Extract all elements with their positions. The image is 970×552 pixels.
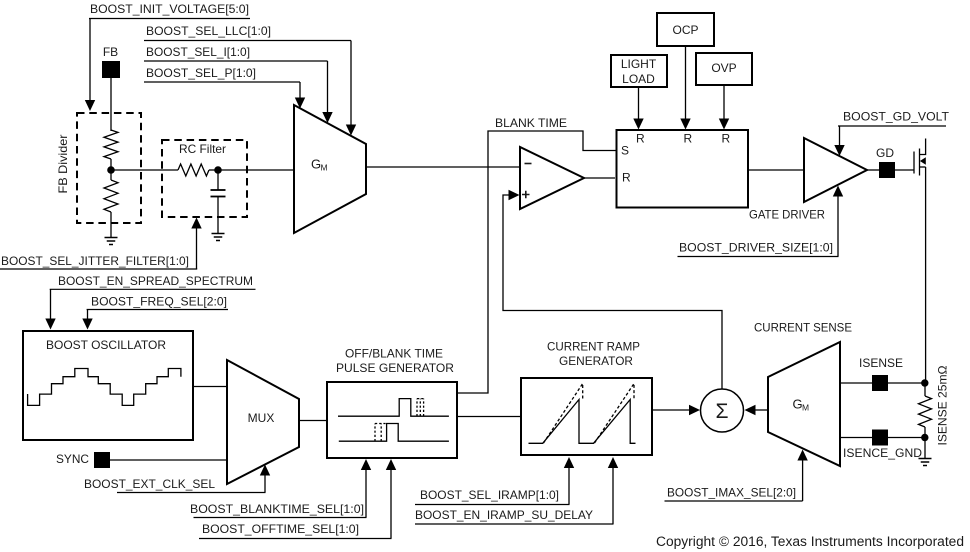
wire OCP to latch — [685, 46, 687, 119]
summer sigma — [701, 389, 744, 432]
svg-text:Copyright © 2016, Texas Instru: Copyright © 2016, Texas Instruments Inco… — [656, 534, 964, 549]
wire divider middle — [110, 159, 112, 180]
svg-text:BOOST_DRIVER_SIZE[1:0]: BOOST_DRIVER_SIZE[1:0] — [679, 241, 833, 255]
wire summer to comparator plus — [503, 195, 722, 389]
wire LIGHT LOAD to latch — [638, 87, 640, 119]
svg-text:BOOST OSCILLATOR: BOOST OSCILLATOR — [46, 338, 166, 352]
FB Divider dashed box — [77, 113, 141, 223]
GM label U1 — [311, 157, 328, 173]
capacitor RC filter — [211, 170, 226, 233]
ground ISENSE — [919, 459, 932, 466]
svg-text:LIGHT: LIGHT — [621, 57, 657, 71]
svg-text:BOOST_SEL_I[1:0]: BOOST_SEL_I[1:0] — [146, 45, 250, 59]
gate driver U4 — [804, 138, 867, 202]
svg-text:BOOST_FREQ_SEL[2:0]: BOOST_FREQ_SEL[2:0] — [91, 295, 227, 309]
CURRENT RAMP GENERATOR labels — [547, 340, 640, 369]
wire BOOST_EN_SPREAD_SPECTRUM — [50, 289, 52, 319]
wire latch to gate driver — [747, 169, 804, 171]
svg-text:FB: FB — [103, 45, 118, 59]
arrowhead BOOST_SEL_I — [322, 112, 332, 123]
label BOOST_SEL_JITTER_FILTER[1:0] — [0, 254, 197, 269]
wire BOOST_INIT_VOLTAGE to FB divider — [89, 19, 91, 101]
op-amp U1 GM error amplifier — [294, 105, 366, 233]
arrowhead into comparator plus — [509, 190, 520, 200]
svg-text:BOOST_SEL_IRAMP[1:0]: BOOST_SEL_IRAMP[1:0] — [420, 488, 559, 502]
label BLANK TIME — [495, 116, 567, 130]
arrowhead BOOST_SEL_IRAMP — [564, 457, 574, 468]
resistor ISENSE 25mOhm — [924, 383, 926, 438]
svg-text:M: M — [321, 163, 328, 173]
svg-text:SYNC: SYNC — [56, 452, 89, 466]
label BOOST_DRIVER_SIZE[1:0] — [678, 241, 839, 257]
latch pin R top2 — [684, 132, 693, 146]
wire current sense to summer — [754, 409, 768, 411]
svg-text:BOOST_INIT_VOLTAGE[5:0]: BOOST_INIT_VOLTAGE[5:0] — [90, 2, 249, 16]
OVP box — [696, 53, 752, 85]
wire RC node to GM input — [218, 169, 294, 171]
wire BOOST_SEL_JITTER_FILTER — [196, 228, 198, 269]
wire comparator output to latch R — [584, 177, 615, 179]
svg-text:ISENSE 25mΩ: ISENSE 25mΩ — [936, 365, 950, 445]
CURRENT SENSE label — [754, 321, 852, 335]
svg-text:GENERATOR: GENERATOR — [559, 354, 633, 368]
pulse generator box — [327, 382, 457, 458]
arrowhead BOOST_GD_VOLT — [834, 145, 844, 156]
label BOOST_EN_IRAMP_SU_DELAY — [415, 508, 614, 524]
latch pin R top1 — [636, 132, 645, 146]
wire ISENSE to trapezoid — [840, 382, 872, 384]
svg-text:MUX: MUX — [248, 411, 275, 425]
label BOOST_SEL_LLC[1:0] — [144, 24, 351, 41]
label BOOST_EXT_CLK_SEL — [84, 477, 266, 493]
arrowhead BOOST_EN_IRAMP_SU_DELAY — [608, 457, 618, 468]
OFF/BLANK TIME PULSE GENERATOR labels — [336, 347, 454, 376]
svg-text:GATE DRIVER: GATE DRIVER — [749, 208, 825, 222]
wire MUX to pulse generator — [299, 420, 327, 422]
arrowhead BOOST_SEL_JITTER_FILTER — [191, 218, 201, 229]
svg-text:BOOST_SEL_JITTER_FILTER[1:0]: BOOST_SEL_JITTER_FILTER[1:0] — [1, 254, 189, 268]
wire SYNC to MUX — [110, 459, 227, 461]
ramp waveform — [529, 384, 636, 444]
oscillator jitter waveform — [28, 369, 181, 406]
pin ISENSE — [859, 356, 903, 391]
wire R2 to ground — [110, 212, 112, 237]
arrowhead BOOST_EN_SPREAD_SPECTRUM — [45, 319, 55, 330]
svg-text:BOOST_OFFTIME_SEL[1:0]: BOOST_OFFTIME_SEL[1:0] — [202, 522, 359, 536]
label BOOST_OFFTIME_SEL[1:0] — [199, 522, 392, 539]
arrowhead BOOST_EXT_CLK_SEL — [260, 465, 270, 476]
node RC filter output — [214, 166, 222, 174]
ground RC filter — [212, 234, 225, 241]
wire BOOST_IMAX_SEL — [802, 460, 804, 501]
wire RC resistor to node — [209, 169, 218, 171]
svg-text:BOOST_EN_SPREAD_SPECTRUM: BOOST_EN_SPREAD_SPECTRUM — [58, 274, 253, 288]
pulse waveform top — [338, 399, 449, 417]
wire node to ground — [924, 438, 926, 459]
label BOOST_BLANKTIME_SEL[1:0] — [190, 502, 367, 518]
wire MOSFET source to ISENSE node — [925, 167, 927, 383]
svg-text:BOOST_GD_VOLT: BOOST_GD_VOLT — [843, 110, 950, 124]
LIGHT LOAD box — [611, 55, 667, 87]
arrowhead OCP — [680, 119, 690, 130]
svg-text:R: R — [722, 132, 731, 146]
wire BOOST_SEL_I — [327, 61, 329, 113]
pin FB — [102, 45, 120, 78]
svg-text:BOOST_BLANKTIME_SEL[1:0]: BOOST_BLANKTIME_SEL[1:0] — [190, 502, 364, 516]
svg-text:Σ: Σ — [716, 400, 729, 423]
node ISENSE — [921, 379, 928, 386]
resistor upper divider R1 — [104, 130, 118, 159]
node FB divider tap — [107, 166, 115, 174]
pin GD — [876, 146, 895, 178]
arrowhead BOOST_SEL_LLC — [346, 125, 356, 136]
wire BOOST_DRIVER_SIZE — [837, 196, 839, 257]
svg-text:OCP: OCP — [672, 23, 698, 37]
pin ISENCE_GND — [843, 430, 922, 461]
svg-text:M: M — [802, 403, 809, 413]
OCP box — [657, 13, 714, 46]
GM label U5 — [793, 397, 810, 413]
wire pulse generator to ramp generator — [457, 416, 521, 418]
wire BOOST_GD_VOLT — [839, 126, 841, 146]
copyright notice — [656, 534, 964, 549]
MUX U6 — [227, 360, 299, 484]
transistor Q1 MOSFET — [914, 139, 926, 176]
svg-text:R: R — [636, 132, 645, 146]
arrowhead BOOST_DRIVER_SIZE — [833, 186, 843, 197]
arrowhead BOOST_BLANKTIME_SEL — [361, 459, 371, 470]
svg-text:BOOST_EN_IRAMP_SU_DELAY: BOOST_EN_IRAMP_SU_DELAY — [415, 508, 593, 522]
MUX label — [248, 411, 275, 425]
wire ISENCE_GND to node — [888, 437, 926, 439]
BOOST OSCILLATOR label — [46, 338, 166, 352]
svg-text:LOAD: LOAD — [622, 72, 655, 86]
label BOOST_SEL_I[1:0] — [144, 45, 328, 61]
resistor RC filter — [178, 164, 209, 176]
label BOOST_SEL_IRAMP[1:0] — [415, 488, 570, 505]
latch box U3 — [617, 130, 749, 208]
svg-text:OVP: OVP — [711, 61, 736, 75]
svg-text:OFF/BLANK TIME: OFF/BLANK TIME — [345, 347, 443, 361]
ramp generator box — [521, 378, 652, 455]
svg-text:CURRENT RAMP: CURRENT RAMP — [547, 340, 640, 354]
wire GM output to comparator — [366, 166, 520, 168]
node ISENCE_GND — [921, 434, 928, 441]
svg-text:S: S — [621, 144, 629, 158]
arrowhead BOOST_SEL_P — [295, 98, 305, 109]
wire tap to RC filter resistor — [111, 169, 178, 171]
wire BOOST_SEL_LLC — [350, 41, 352, 126]
wire ISENCE_GND to trapezoid — [840, 437, 872, 439]
svg-text:RC Filter: RC Filter — [179, 142, 226, 156]
latch pin R top3 — [722, 132, 731, 146]
wire BOOST_FREQ_SEL — [87, 310, 89, 320]
latch pin R left — [622, 171, 631, 185]
wire blank time from pulse generator to latch S — [457, 131, 616, 393]
wire oscillator to MUX — [193, 386, 227, 388]
svg-text:BOOST_SEL_LLC[1:0]: BOOST_SEL_LLC[1:0] — [146, 24, 271, 38]
comparator minus input — [525, 163, 532, 165]
arrowhead into summer left — [689, 405, 700, 415]
RC Filter dashed box — [162, 140, 247, 217]
wire BOOST_SEL_P — [299, 82, 301, 98]
arrowhead BOOST_INIT_VOLTAGE — [85, 100, 95, 111]
svg-text:BLANK TIME: BLANK TIME — [495, 116, 567, 130]
resistor lower divider R2 — [104, 180, 118, 212]
svg-text:PULSE GENERATOR: PULSE GENERATOR — [336, 361, 454, 375]
wire FB pin to divider resistor — [110, 78, 112, 131]
arrowhead OVP — [719, 119, 729, 130]
ground FB divider — [105, 238, 118, 245]
wire BOOST_BLANKTIME_SEL — [365, 470, 367, 518]
wire BOOST_EXT_CLK_SEL — [264, 475, 266, 493]
label BOOST_FREQ_SEL[2:0] — [87, 295, 228, 310]
GATE DRIVER label — [749, 208, 825, 222]
wire gate driver to GD pin — [867, 169, 879, 171]
arrowhead LIGHT LOAD — [633, 119, 643, 130]
RC Filter label — [179, 142, 226, 156]
label BOOST_IMAX_SEL[2:0] — [665, 486, 803, 502]
svg-text:R: R — [684, 132, 693, 146]
op-amp U5 current sense GM — [768, 342, 840, 466]
arrowhead BOOST_FREQ_SEL — [82, 319, 92, 330]
comparator plus input — [522, 191, 530, 198]
svg-text:ISENSE: ISENSE — [859, 356, 903, 370]
wire BOOST_EN_IRAMP_SU_DELAY — [612, 468, 614, 525]
arrowhead into summer right — [745, 405, 756, 415]
svg-text:CURRENT SENSE: CURRENT SENSE — [754, 321, 852, 335]
label BOOST_GD_VOLT — [838, 110, 950, 127]
wire ISENSE to node — [888, 382, 926, 384]
svg-text:BOOST_EXT_CLK_SEL: BOOST_EXT_CLK_SEL — [84, 477, 215, 491]
svg-text:R: R — [622, 171, 631, 185]
label BOOST_SEL_P[1:0] — [144, 66, 300, 82]
pulse waveform bottom — [339, 424, 449, 442]
wire BOOST_SEL_IRAMP — [568, 468, 570, 505]
pin SYNC — [56, 452, 110, 468]
svg-text:ISENCE_GND: ISENCE_GND — [843, 446, 922, 460]
svg-text:BOOST_IMAX_SEL[2:0]: BOOST_IMAX_SEL[2:0] — [667, 486, 796, 500]
svg-text:FB Divider: FB Divider — [56, 135, 70, 194]
wire OVP to latch — [723, 85, 725, 119]
label BOOST_EN_SPREAD_SPECTRUM — [50, 274, 256, 289]
comparator U2 — [520, 147, 584, 209]
wire GD pin to MOSFET gate — [895, 169, 914, 171]
label BOOST_INIT_VOLTAGE[5:0] — [89, 2, 250, 19]
svg-text:GD: GD — [876, 146, 894, 160]
latch pin S — [621, 144, 629, 158]
wire ramp generator to summer — [652, 409, 690, 411]
arrowhead BOOST_OFFTIME_SEL — [386, 459, 396, 470]
boost oscillator box — [23, 331, 193, 440]
wire BOOST_OFFTIME_SEL — [390, 470, 392, 539]
arrowhead BOOST_IMAX_SEL — [797, 450, 807, 461]
svg-text:BOOST_SEL_P[1:0]: BOOST_SEL_P[1:0] — [146, 66, 256, 80]
